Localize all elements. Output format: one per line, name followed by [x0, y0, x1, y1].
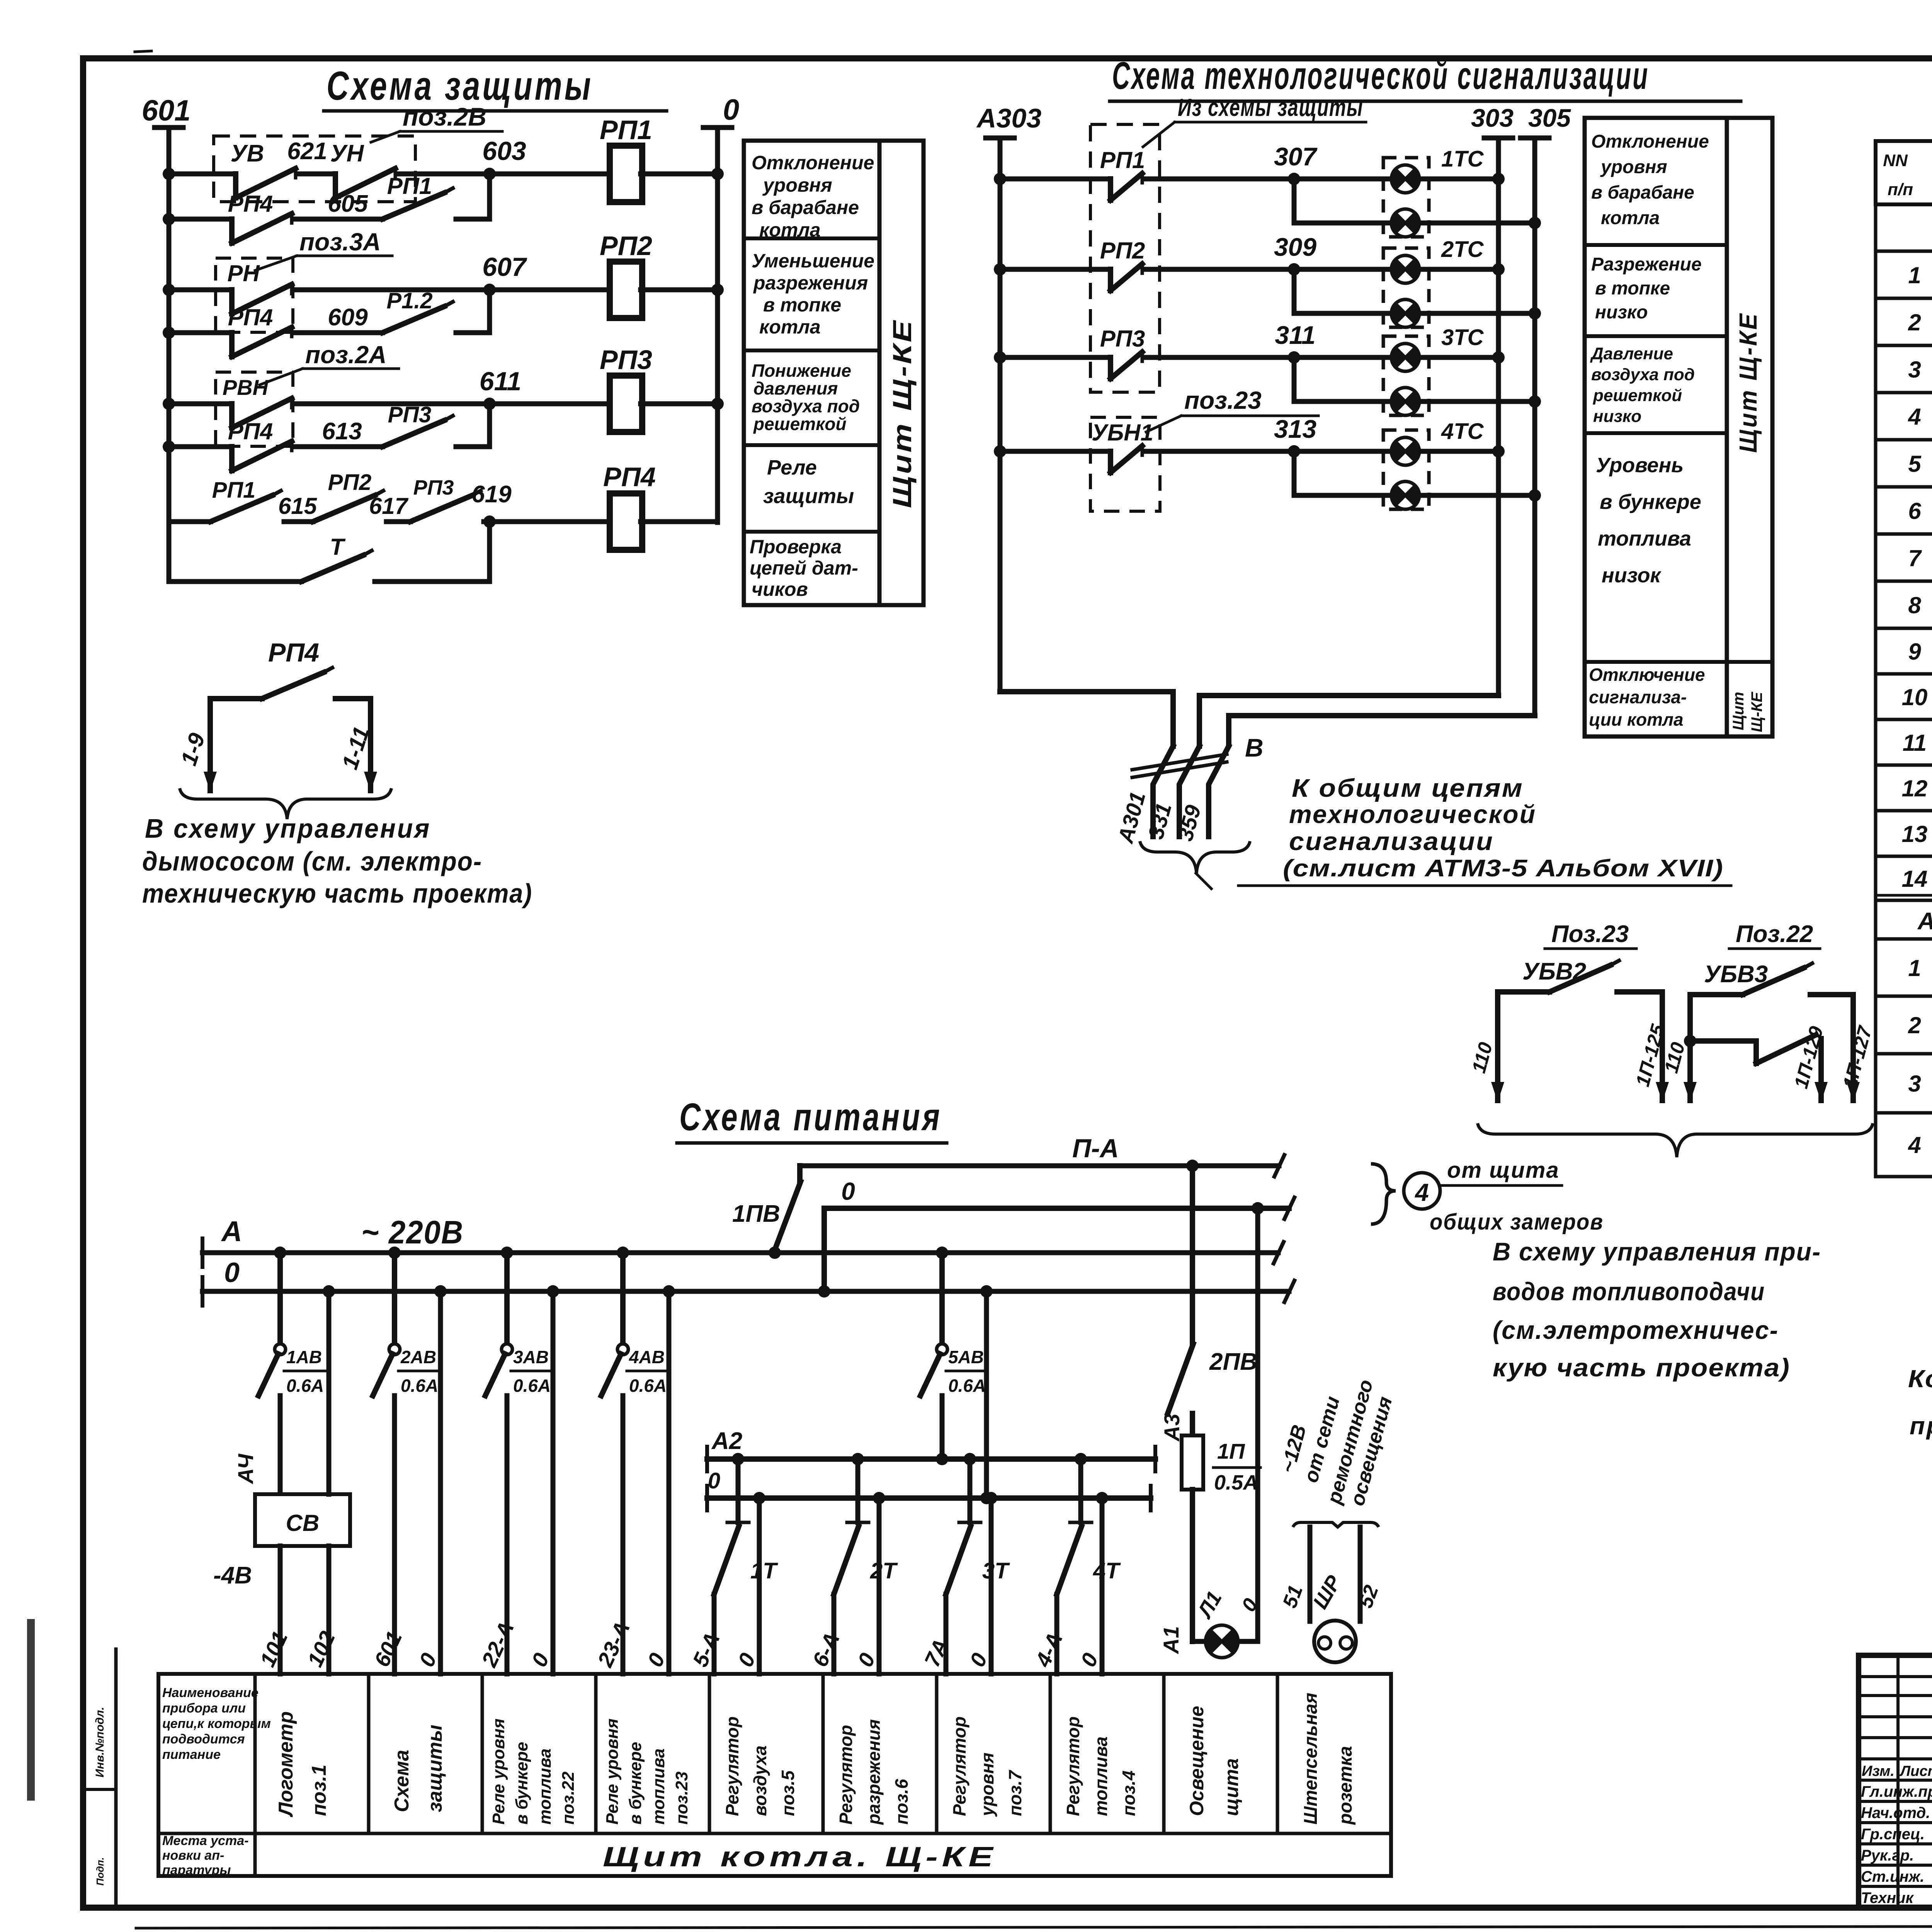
svg-text:Наименование: Наименование: [162, 1685, 259, 1700]
legend text отклонение уровня Б: [1591, 131, 1709, 228]
contact РП3: [1100, 326, 1145, 379]
svg-text:NN: NN: [1883, 151, 1908, 170]
svg-text:Схема: Схема: [391, 1750, 413, 1812]
svg-text:4: 4: [1908, 1132, 1921, 1158]
svg-text:617: 617: [369, 493, 409, 519]
svg-text:Щит: Щит: [1730, 692, 1747, 730]
svg-text:Лист: Лист: [1899, 1763, 1932, 1779]
svg-text:609: 609: [328, 304, 368, 331]
label А2: [711, 1428, 742, 1454]
wire r4 m1: [284, 519, 313, 524]
svg-text:щита: щита: [1221, 1758, 1242, 1816]
svg-text:Техник: Техник: [1861, 1889, 1914, 1906]
wire 2Т to table: [832, 1594, 837, 1674]
wire r2 to coil: [296, 287, 611, 293]
wire r4 m2: [386, 519, 410, 524]
note К общим цепям: [1238, 774, 1731, 886]
wire r3b left: [163, 440, 232, 453]
note line 2: [1910, 1412, 1932, 1440]
svg-text:2АВ: 2АВ: [400, 1347, 436, 1367]
svg-text:-4В: -4В: [213, 1562, 252, 1589]
svg-text:0.5А: 0.5А: [1214, 1471, 1258, 1494]
title Схема технологической сигнализации: [1110, 54, 1741, 101]
relay coil РП4: [603, 462, 656, 550]
wire r4 left: [169, 519, 211, 524]
svg-text:(см.элетротехничес-: (см.элетротехничес-: [1493, 1316, 1779, 1344]
wire to arrow 1-9: [210, 699, 371, 791]
svg-text:подводится: подводится: [162, 1732, 245, 1747]
title Схема защиты: [324, 63, 667, 111]
node 307: [1274, 142, 1318, 185]
breaker 4АВ: [601, 1247, 668, 1396]
wire 311 to lamp: [1146, 355, 1388, 360]
svg-text:решеткой: решеткой: [1593, 386, 1682, 405]
svg-text:технологической: технологической: [1289, 800, 1536, 828]
svg-text:сигнализации: сигнализации: [1289, 827, 1494, 855]
wire 110 left: [1495, 992, 1500, 1100]
wire bus 0П: [818, 1197, 1294, 1298]
wire 101 to table: [278, 1546, 283, 1674]
svg-text:в бункере: в бункере: [1600, 490, 1701, 514]
svg-text:605: 605: [328, 190, 368, 217]
equipment row 7: [1908, 537, 1932, 577]
label от щита: [1441, 1158, 1562, 1185]
wire 110 second: [1684, 995, 1696, 1100]
node 0 label: [723, 94, 739, 126]
svg-text:Регулятор: Регулятор: [1063, 1716, 1083, 1816]
node 607: [482, 252, 527, 296]
node 619: [471, 481, 512, 528]
svg-text:Щ-КЕ: Щ-КЕ: [1748, 692, 1765, 732]
svg-text:Места уста-: Места уста-: [162, 1833, 248, 1848]
label А3: [1160, 1413, 1184, 1442]
title block row Нач.отд.: [1861, 1803, 1932, 1821]
svg-text:топлива: топлива: [536, 1748, 554, 1825]
switch 1ПВ: [732, 1166, 801, 1259]
equipment header texts: [1883, 146, 1932, 206]
label -4В: [213, 1562, 252, 1589]
contact РП4 r2b: [228, 304, 292, 357]
svg-text:Понижение: Понижение: [752, 361, 851, 381]
legend text разрежение низко: [1591, 254, 1702, 323]
arrow 110: [1468, 1040, 1504, 1102]
svg-text:дымососом (см. электро-: дымососом (см. электро-: [142, 846, 482, 876]
switch 1Т: [714, 1453, 778, 1594]
wire r3 to coil: [296, 401, 611, 406]
svg-text:при нормальной работе котла: при нормальной работе котла замкнуты.: [1910, 1412, 1932, 1440]
contact 1П-129 branch: [1690, 1035, 1816, 1063]
svg-text:РП1: РП1: [212, 478, 256, 503]
table cell реле уровня 23: [603, 1718, 691, 1825]
relay coil РП3: [600, 345, 652, 432]
label 0 subbus: [708, 1468, 720, 1493]
svg-text:10: 10: [1902, 684, 1928, 710]
equipment row 12: [1902, 776, 1932, 806]
svg-text:3: 3: [1908, 1071, 1921, 1097]
wire А301 horizontal: [1000, 692, 1173, 746]
equipment row 3: [1908, 347, 1932, 389]
svg-text:РП3: РП3: [1100, 326, 1145, 352]
table cell штепсельная розетка: [1301, 1693, 1356, 1825]
svg-text:в топке: в топке: [763, 294, 841, 316]
svg-text:РП2: РП2: [1100, 238, 1145, 264]
contact УН: [330, 140, 395, 198]
contact РП3 r3b: [383, 402, 453, 447]
wire label 0 at x2275: [853, 1649, 880, 1670]
contact РП4 r1b: [228, 191, 292, 243]
svg-text:Регулятор: Регулятор: [722, 1716, 742, 1816]
label поз.23: [1146, 386, 1318, 432]
rectifier СВ: [255, 1494, 350, 1546]
svg-text:603: 603: [482, 136, 526, 166]
svg-text:Щит котла. Щ-КЕ: Щит котла. Щ-КЕ: [603, 1842, 997, 1872]
svg-text:РП4: РП4: [228, 191, 273, 217]
svg-text:305: 305: [1528, 104, 1571, 132]
contact УБВ2: [1498, 958, 1619, 992]
svg-text:разрежения: разрежения: [864, 1719, 884, 1825]
lamp 4ТС: [1391, 437, 1419, 465]
svg-text:П-А: П-А: [1072, 1134, 1119, 1163]
svg-text:Давление: Давление: [1590, 344, 1673, 363]
note 12В от сети: [1277, 1377, 1397, 1508]
wire r4 right: [641, 519, 718, 524]
wire row 309 left: [994, 263, 1111, 276]
wire 102 drop: [323, 1285, 335, 1674]
svg-text:2: 2: [1908, 1012, 1921, 1038]
label 613: [322, 418, 362, 445]
arrow 1П-125: [1632, 1022, 1669, 1102]
svg-text:1: 1: [1908, 955, 1921, 981]
left margin column line: [83, 1649, 116, 1908]
breaker 3АВ: [485, 1247, 552, 1396]
svg-text:2ПВ: 2ПВ: [1209, 1349, 1257, 1375]
table cell схема защиты: [391, 1725, 446, 1812]
paper edge lines bottom: [94, 1926, 1932, 1932]
wire branch 1ТС to bus 305: [1423, 217, 1541, 229]
svg-text:7: 7: [1908, 545, 1922, 571]
equipment row 8: [1908, 592, 1932, 622]
svg-text:цепей дат-: цепей дат-: [750, 557, 858, 579]
bracket ШР: [1293, 1522, 1379, 1527]
wire 0 pair 4Т: [1096, 1492, 1108, 1674]
equipment row 14: [1902, 866, 1932, 896]
wire 313 to lamp: [1146, 449, 1388, 454]
svg-text:общих замеров: общих замеров: [1430, 1209, 1604, 1235]
svg-text:низок: низок: [1602, 564, 1662, 587]
wire r2 left: [163, 284, 232, 296]
svg-text:4Т: 4Т: [1093, 1558, 1121, 1583]
label 1ТС: [1441, 146, 1484, 172]
contact РП1 r4: [211, 478, 281, 522]
svg-text:В схему управления: В схему управления: [145, 813, 431, 844]
svg-text:2: 2: [1908, 310, 1921, 335]
contact РВН: [223, 375, 292, 428]
wire row 313 left: [994, 445, 1111, 457]
svg-text:РП1: РП1: [600, 115, 652, 145]
equipment row 1: [1908, 262, 1932, 293]
lamp 1ТС b: [1391, 209, 1419, 237]
svg-text:защиты: защиты: [763, 485, 854, 508]
svg-text:Поз.22: Поз.22: [1736, 921, 1813, 947]
contact РП1 r1b: [383, 173, 453, 219]
svg-text:уровня: уровня: [977, 1753, 997, 1817]
svg-text:1П: 1П: [1217, 1439, 1245, 1463]
svg-text:чиков: чиков: [752, 578, 808, 600]
svg-text:УБН1: УБН1: [1092, 420, 1153, 446]
title Схема питания: [677, 1095, 947, 1143]
equipment row m3: [1908, 1066, 1932, 1107]
wire 3Т to table: [944, 1594, 949, 1674]
svg-text:В: В: [1245, 733, 1264, 762]
lamp 3ТС b: [1391, 388, 1419, 415]
svg-text:3Т: 3Т: [982, 1558, 1010, 1583]
svg-text:601: 601: [142, 94, 191, 127]
wire 1П-129: [1818, 1039, 1824, 1100]
wire label 102 at x851: [303, 1628, 340, 1670]
equipment table main grid: [1876, 251, 1932, 900]
svg-text:14: 14: [1902, 866, 1928, 892]
svg-text:РП3: РП3: [600, 345, 652, 375]
svg-text:поз.2В: поз.2В: [403, 102, 486, 131]
brace дымосос: [180, 788, 391, 819]
svg-text:поз.22: поз.22: [559, 1771, 578, 1825]
table cell регулятор воздуха: [722, 1716, 798, 1816]
svg-text:303: 303: [1471, 104, 1514, 132]
wire 307 to lamp: [1146, 177, 1388, 182]
wire branch 311: [1294, 357, 1388, 401]
lamp 3ТС: [1391, 344, 1419, 371]
svg-text:РП2: РП2: [328, 470, 372, 495]
wire 52: [1354, 1527, 1383, 1621]
svg-text:0.6А: 0.6А: [948, 1376, 986, 1396]
svg-text:сигнализа-: сигнализа-: [1589, 687, 1687, 707]
svg-text:2ТС: 2ТС: [1441, 237, 1484, 262]
dashed box РП1-РП3: [1090, 124, 1160, 392]
svg-text:РП1: РП1: [387, 173, 432, 199]
wire 359 horizontal: [1229, 716, 1535, 743]
wire r2b mid: [296, 330, 383, 335]
contact РП4 to дымосос: [210, 638, 332, 699]
svg-text:низко: низко: [1593, 407, 1641, 426]
dashed box lamps 2ТС: [1383, 248, 1429, 327]
legend text давление воздуха: [1590, 344, 1695, 426]
svg-text:в бункере: в бункере: [512, 1742, 531, 1825]
svg-text:311: 311: [1275, 321, 1315, 349]
svg-text:А2: А2: [711, 1428, 742, 1454]
svg-text:В схему управления при-: В схему управления при-: [1493, 1237, 1821, 1266]
svg-text:Гл.инж.пр.: Гл.инж.пр.: [1861, 1783, 1932, 1800]
wire row 307 left: [994, 173, 1111, 185]
label общих замеров: [1430, 1209, 1604, 1235]
arrow 1-11: [337, 724, 377, 792]
svg-text:Реле уровня: Реле уровня: [603, 1718, 622, 1825]
wire 4Т to table: [1054, 1594, 1060, 1674]
svg-text:А: А: [221, 1215, 242, 1247]
equipment section по месту: [1876, 900, 1932, 939]
circle 4 от щита: [1404, 1173, 1440, 1209]
svg-text:Отключение: Отключение: [1589, 665, 1705, 685]
wire 309 to lamp: [1146, 267, 1388, 272]
wire 2ТС to bus 303: [1423, 263, 1505, 276]
lamp 4ТС b: [1391, 481, 1419, 509]
wire r1 to coil: [399, 172, 611, 177]
svg-text:4: 4: [1414, 1179, 1429, 1206]
left margin caption: [94, 1707, 106, 1886]
wire 0 drop c: [663, 1285, 675, 1674]
svg-text:4: 4: [1908, 404, 1921, 430]
svg-text:поз.1: поз.1: [308, 1765, 330, 1816]
lamp 2ТС b: [1391, 299, 1419, 327]
svg-text:Гр.спец.: Гр.спец.: [1861, 1826, 1925, 1843]
svg-text:котла: котла: [1601, 208, 1660, 228]
wire 23-А drop: [621, 1396, 626, 1674]
svg-text:в барабане: в барабане: [1591, 182, 1694, 203]
label 615: [278, 493, 318, 519]
equipment row 10: [1902, 675, 1932, 716]
svg-text:техническую часть проекта): техническую часть проекта): [142, 878, 532, 908]
node 303 label: [1471, 104, 1514, 132]
label АЧ: [233, 1453, 258, 1485]
svg-text:Освещение: Освещение: [1186, 1706, 1207, 1816]
wire branch 2ТС to bus 305: [1423, 307, 1541, 320]
wire branch 313: [1294, 451, 1388, 495]
svg-text:3АВ: 3АВ: [513, 1347, 549, 1367]
label 220В: [361, 1214, 464, 1250]
title block row Ст.инж.: [1861, 1867, 1932, 1885]
svg-text:1ТС: 1ТС: [1441, 146, 1484, 172]
equipment table header grid: [1876, 141, 1932, 204]
equipment row 13: [1902, 821, 1932, 851]
wire 22-А drop: [505, 1396, 510, 1674]
wire 0 pair 1Т: [753, 1492, 765, 1674]
svg-text:СВ: СВ: [286, 1510, 320, 1536]
switch 2ПВ: [1168, 1160, 1257, 1413]
svg-text:от щита: от щита: [1447, 1158, 1560, 1183]
dashed box поз.2А: [216, 372, 293, 446]
brace cable: [1140, 841, 1250, 889]
table cell щит котла: [603, 1842, 997, 1872]
contact РН: [227, 260, 292, 314]
svg-text:топлива: топлива: [649, 1748, 668, 1825]
socket ШР: [1308, 1571, 1356, 1662]
svg-text:4АВ: 4АВ: [629, 1347, 665, 1367]
svg-text:котла: котла: [759, 219, 821, 241]
title block row Рук.гр.: [1861, 1846, 1932, 1864]
wire r1 right: [641, 168, 724, 180]
node 311: [1275, 321, 1315, 364]
svg-text:К общим цепям: К общим цепям: [1292, 774, 1524, 802]
legend box сигнализация: [1585, 118, 1772, 736]
wire 101 drop: [278, 1396, 283, 1494]
svg-text:Отклонение: Отклонение: [752, 152, 874, 173]
legend text уровень в бункере: [1596, 454, 1701, 587]
wire label 601 at x1024: [369, 1628, 407, 1670]
wire bus 601: [155, 128, 183, 582]
svg-text:Логометр: Логометр: [275, 1711, 297, 1818]
svg-text:РП4: РП4: [268, 638, 319, 667]
wire 1Т to table: [712, 1594, 717, 1674]
wire 0 drop b: [547, 1285, 559, 1674]
relay coil РП1: [600, 115, 652, 202]
lamp 2ТС: [1391, 255, 1419, 283]
wire branch 307: [1294, 179, 1388, 223]
svg-text:Уменьшение: Уменьшение: [752, 250, 874, 272]
svg-text:топлива: топлива: [1091, 1736, 1111, 1816]
brace топливоподача: [1478, 1123, 1873, 1157]
arrow 110 b: [1660, 1040, 1697, 1102]
svg-text:Поз.23: Поз.23: [1551, 921, 1629, 947]
fuse 1П: [1182, 1413, 1260, 1627]
svg-text:3: 3: [1908, 357, 1921, 383]
wire label 5-А at x1848: [688, 1629, 724, 1670]
dashed box lamps 3ТС: [1383, 336, 1429, 415]
wire 3ТС to bus 303: [1423, 351, 1505, 364]
wire 5АВ to А2: [936, 1396, 948, 1465]
svg-text:5АВ: 5АВ: [948, 1347, 984, 1367]
wire row 311 left: [994, 351, 1111, 364]
svg-text:РП3: РП3: [413, 476, 454, 499]
wire r1b mid: [296, 217, 383, 222]
svg-text:новки ап-: новки ап-: [162, 1848, 224, 1863]
svg-text:3ТС: 3ТС: [1441, 325, 1484, 350]
wire r3b mid: [296, 444, 383, 449]
svg-text:309: 309: [1274, 233, 1316, 261]
wire r2 right: [641, 284, 724, 296]
svg-text:АЧ: АЧ: [233, 1453, 258, 1485]
svg-text:8: 8: [1908, 592, 1921, 618]
svg-text:Инв.№подл.: Инв.№подл.: [94, 1707, 106, 1777]
wire УБВ2 right: [1617, 992, 1662, 1100]
svg-text:поз.6: поз.6: [891, 1779, 912, 1825]
svg-text:УН: УН: [330, 140, 364, 167]
wire label 0 at x1431: [527, 1649, 554, 1670]
svg-text:Ст.инж.: Ст.инж.: [1861, 1868, 1924, 1885]
svg-text:котла: котла: [759, 316, 821, 338]
svg-text:Уровень: Уровень: [1596, 454, 1684, 477]
table cell освещение щита: [1186, 1706, 1242, 1816]
svg-text:УВ: УВ: [231, 140, 264, 167]
wire bus 0 sub: [707, 1486, 1151, 1510]
wire 1ТС to bus 303: [1423, 173, 1505, 185]
wire 331 horizontal: [1199, 696, 1498, 746]
wire 51: [1279, 1527, 1310, 1621]
svg-text:п/п: п/п: [1888, 180, 1913, 199]
svg-text:прибора или: прибора или: [162, 1701, 246, 1716]
svg-text:водов топливоподачи: водов топливоподачи: [1493, 1277, 1765, 1306]
svg-text:615: 615: [278, 493, 318, 519]
wire r1b right: [456, 174, 490, 219]
svg-text:Аппаратура по месту:: Аппаратура по месту:: [1917, 908, 1932, 935]
svg-text:ции котла: ции котла: [1589, 709, 1684, 730]
svg-text:613: 613: [322, 418, 362, 445]
wire r4b right: [375, 522, 490, 582]
contact УВ: [231, 140, 296, 198]
svg-text:Нач.отд.: Нач.отд.: [1861, 1804, 1930, 1821]
wire 4ТС to bus 303: [1423, 445, 1505, 457]
svg-text:РП4: РП4: [228, 304, 273, 330]
svg-text:~ 220В: ~ 220В: [361, 1214, 464, 1250]
svg-text:Реле: Реле: [767, 456, 817, 479]
arrow 1П-129: [1790, 1024, 1828, 1102]
node 313: [1274, 415, 1316, 457]
svg-text:поз.5: поз.5: [778, 1770, 798, 1816]
dashed box поз.3А: [216, 258, 293, 332]
switch 3Т: [946, 1453, 1010, 1594]
contact УБВ3: [1690, 961, 1812, 995]
table cell логометр: [275, 1711, 330, 1818]
svg-text:1АВ: 1АВ: [286, 1347, 322, 1367]
equipment row 6: [1908, 492, 1932, 531]
